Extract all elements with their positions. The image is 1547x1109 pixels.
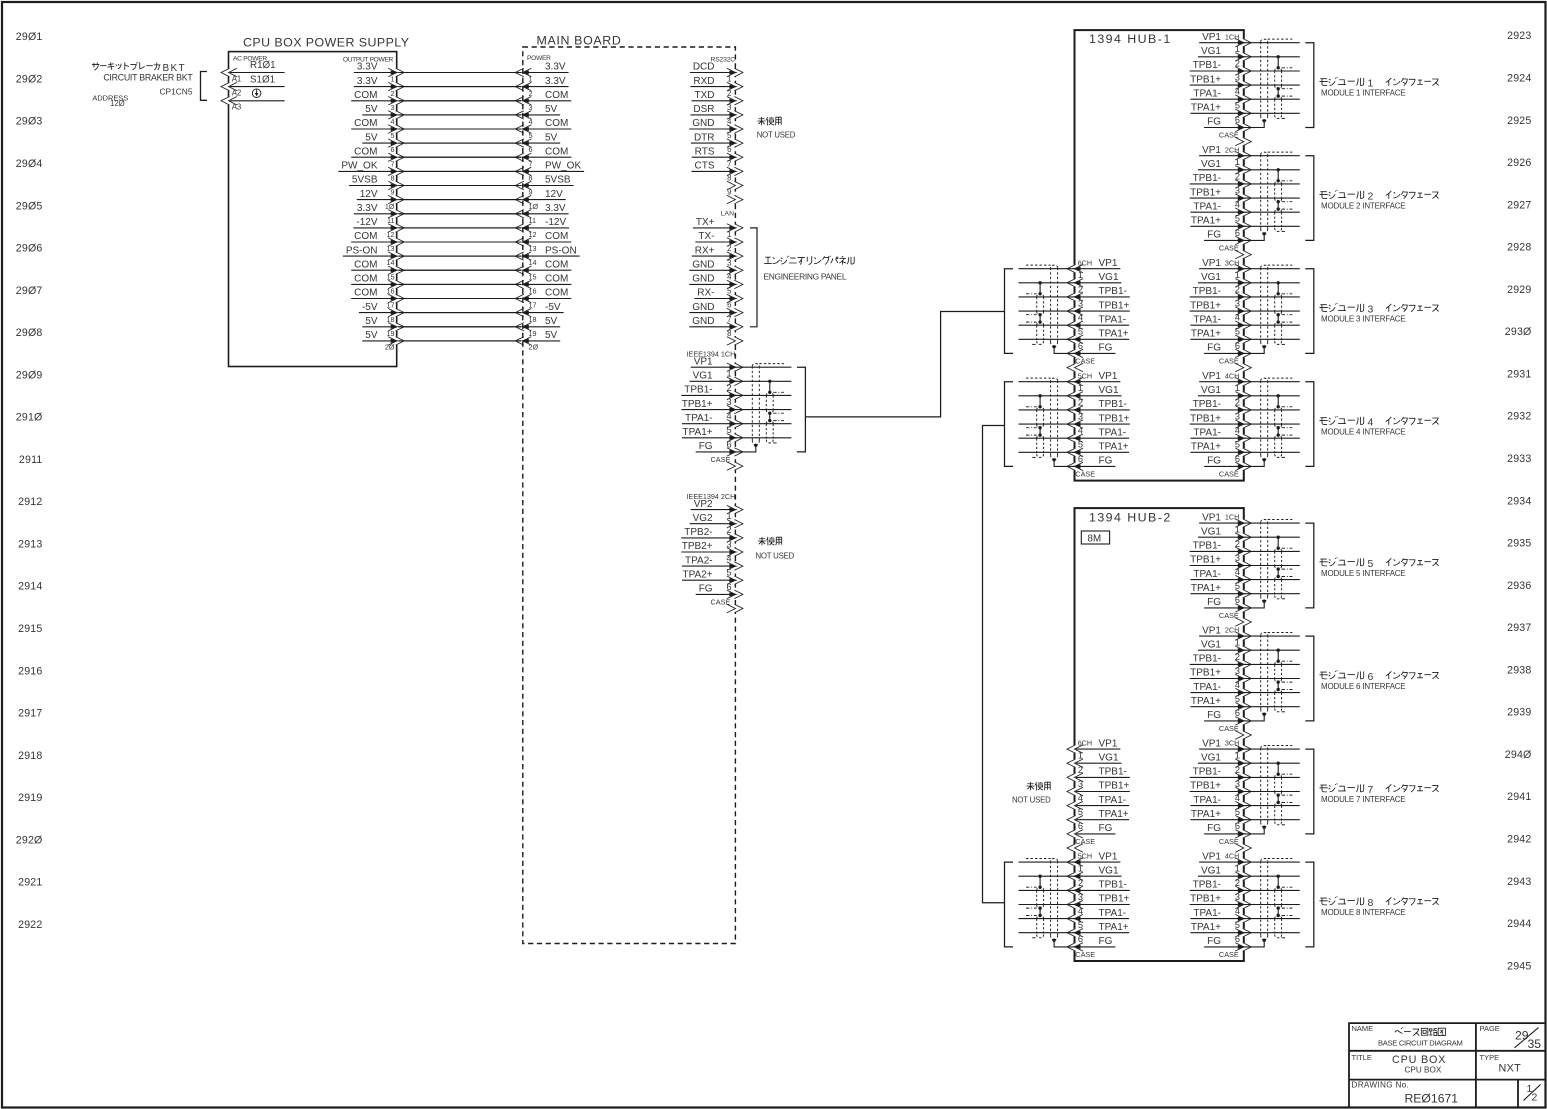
svg-text:2928: 2928 <box>1507 242 1531 254</box>
svg-text:12V: 12V <box>360 189 378 200</box>
label module 5 interface <box>1319 557 1438 578</box>
LAN connector header <box>721 211 734 218</box>
svg-text:VG1: VG1 <box>1201 526 1221 537</box>
HUB-1 6CH cable bracket <box>1005 269 1014 354</box>
svg-text:TX+: TX+ <box>696 217 715 228</box>
HUB-2 4CH pin 6 FG <box>1204 934 1251 951</box>
module 4 interface bracket <box>1305 382 1314 467</box>
label module 6 interface <box>1319 670 1438 691</box>
MAIN BOARD title <box>537 34 622 48</box>
svg-text:9: 9 <box>391 188 395 197</box>
svg-text:4: 4 <box>726 411 731 421</box>
title block TITLE cell: CPU BOX <box>1352 1053 1447 1075</box>
svg-text:TPA1+: TPA1+ <box>1191 216 1221 227</box>
HUB-1 2CH pin 3 TPB1+ <box>1190 186 1252 203</box>
svg-text:VG1: VG1 <box>1099 865 1119 876</box>
svg-text:TPA1-: TPA1- <box>1193 908 1221 919</box>
svg-text:15: 15 <box>387 272 395 281</box>
svg-text:TPA1+: TPA1+ <box>682 427 712 438</box>
power pin 20 labels <box>385 343 539 352</box>
power wire pin 5: 5V <box>362 131 560 147</box>
LAN pin 3: GND <box>689 258 743 274</box>
svg-text:VG1: VG1 <box>1201 46 1221 57</box>
svg-text:4: 4 <box>391 117 395 126</box>
svg-text:7: 7 <box>529 159 533 168</box>
svg-text:3: 3 <box>529 103 533 112</box>
svg-text:TPB1-: TPB1- <box>1193 541 1221 552</box>
LAN pin 5: RX- <box>694 287 743 303</box>
svg-text:TPB1-: TPB1- <box>1193 399 1221 410</box>
svg-text:VP1: VP1 <box>1099 258 1118 269</box>
svg-text:6: 6 <box>1235 341 1240 351</box>
svg-text:CASE: CASE <box>1219 724 1239 733</box>
HUB-2 1CH pin 6 FG <box>1204 595 1251 612</box>
svg-text:TPA1-: TPA1- <box>685 413 713 424</box>
svg-text:VP1: VP1 <box>1099 738 1118 749</box>
HUB channel 2CH cable shield group to module 6 <box>1244 633 1300 721</box>
circuit breaker bracket to CP1CN5 <box>201 72 208 101</box>
HUB-1 4CH pin 5 TPA1+ <box>1190 440 1251 457</box>
HUB-1 3CH pin VP1 <box>1199 258 1251 273</box>
svg-text:2: 2 <box>1235 765 1240 775</box>
LAN pin 7: GND <box>689 315 743 331</box>
svg-text:3CH: 3CH <box>1225 258 1239 267</box>
svg-text:16: 16 <box>387 287 395 296</box>
HUB-2 4CH pin VP1 <box>1199 851 1251 866</box>
svg-text:VP1: VP1 <box>1202 625 1221 636</box>
HUB-1 6CH pin VP1 <box>1067 258 1120 273</box>
svg-text:TPB1-: TPB1- <box>1193 173 1221 184</box>
HUB-2 3CH pin 3 TPB1+ <box>1190 779 1252 796</box>
svg-text:2944: 2944 <box>1507 918 1531 930</box>
svg-text:2918: 2918 <box>18 750 42 762</box>
svg-text:5: 5 <box>726 425 731 435</box>
svg-text:FG: FG <box>699 584 713 595</box>
MB IEEE1394 2CH CASE pin <box>711 598 743 613</box>
svg-text:CASE: CASE <box>1219 950 1239 959</box>
svg-text:2Ø: 2Ø <box>385 343 395 352</box>
HUB-2 3CH pin 5 TPA1+ <box>1190 807 1251 824</box>
svg-text:6: 6 <box>1078 454 1083 464</box>
HUB-2 5CH pin VP1 <box>1067 851 1120 866</box>
svg-text:2929: 2929 <box>1507 284 1531 296</box>
HUB-2 6CH pin VP1 <box>1067 738 1120 753</box>
svg-text:2: 2 <box>1078 765 1083 775</box>
HUB-1 5CH pin 6 FG <box>1067 454 1115 471</box>
svg-text:5: 5 <box>1235 214 1240 224</box>
HUB-2 3CH pin 2 TPB1- <box>1190 765 1252 782</box>
svg-text:TPB1+: TPB1+ <box>682 399 713 410</box>
svg-text:6: 6 <box>1235 595 1240 605</box>
power supply U-PSU box outline <box>229 52 397 367</box>
svg-text:2Ø: 2Ø <box>529 343 539 352</box>
svg-text:5: 5 <box>1078 920 1083 930</box>
svg-text:4: 4 <box>529 117 533 126</box>
svg-text:5: 5 <box>1235 327 1240 337</box>
svg-text:2945: 2945 <box>1507 960 1531 972</box>
svg-text:4: 4 <box>727 117 732 126</box>
svg-text:291Ø: 291Ø <box>16 412 43 424</box>
svg-text:-5V: -5V <box>362 302 378 313</box>
svg-text:8: 8 <box>727 329 731 338</box>
svg-text:1: 1 <box>1235 383 1240 393</box>
svg-text:6: 6 <box>727 301 731 310</box>
svg-text:FG: FG <box>1099 456 1113 467</box>
HUB-2 2CH pin 2 TPB1- <box>1190 652 1252 669</box>
svg-text:NAME: NAME <box>1352 1024 1374 1033</box>
svg-text:6: 6 <box>726 439 731 449</box>
svg-text:FG: FG <box>1207 710 1221 721</box>
HUB-1 6CH CASE pin <box>1067 357 1095 372</box>
svg-text:TPA1+: TPA1+ <box>1099 442 1129 453</box>
svg-text:TPA1-: TPA1- <box>1193 427 1221 438</box>
svg-text:6: 6 <box>726 582 731 592</box>
svg-text:29Ø7: 29Ø7 <box>16 285 43 297</box>
svg-text:TPA1-: TPA1- <box>1193 795 1221 806</box>
HUB-1 4CH pin 4 TPA1- <box>1190 426 1251 443</box>
HUB-1 5CH pin 1 VG1 <box>1067 383 1122 400</box>
svg-text:CTS: CTS <box>695 161 715 172</box>
svg-text:FG: FG <box>1207 456 1221 467</box>
svg-text:4: 4 <box>1078 426 1083 436</box>
svg-text:TPB1+: TPB1+ <box>1190 74 1221 85</box>
svg-text:5: 5 <box>1235 101 1240 111</box>
IEEE1394 2CH not used label <box>756 537 795 561</box>
power wire pin 15: COM <box>351 272 571 288</box>
svg-text:29Ø6: 29Ø6 <box>16 243 43 255</box>
svg-text:6: 6 <box>1235 115 1240 125</box>
svg-text:COM: COM <box>545 259 568 270</box>
svg-text:CIRCUIT BRAKER BKT: CIRCUIT BRAKER BKT <box>103 72 193 82</box>
svg-text:TPA1+: TPA1+ <box>1099 922 1129 933</box>
svg-text:5VSB: 5VSB <box>545 175 571 186</box>
svg-text:2927: 2927 <box>1507 199 1531 211</box>
svg-text:5: 5 <box>1078 807 1083 817</box>
svg-text:PW_OK: PW_OK <box>545 161 581 172</box>
svg-text:S1Ø1: S1Ø1 <box>250 74 275 85</box>
svg-text:11: 11 <box>387 216 394 225</box>
HUB-2 1CH pin 1 VG1 <box>1198 525 1251 542</box>
HUB channel 3CH cable shield group to module 3 <box>1244 265 1300 353</box>
HUB-1 2CH pin VP1 <box>1199 145 1251 160</box>
svg-text:2: 2 <box>727 244 731 253</box>
svg-text:VP1: VP1 <box>1202 851 1221 862</box>
svg-text:-12V: -12V <box>545 217 566 228</box>
svg-text:TX-: TX- <box>698 231 714 242</box>
HUB-2 3CH pin 1 VG1 <box>1198 751 1251 768</box>
svg-text:2943: 2943 <box>1507 876 1531 888</box>
label module 3 interface <box>1319 303 1438 324</box>
HUB-2 2CH channel label 2CH <box>1225 626 1239 635</box>
svg-text:-5V: -5V <box>545 302 561 313</box>
svg-text:TPB1-: TPB1- <box>1193 286 1221 297</box>
HUB-1 3CH pin 2 TPB1- <box>1190 284 1252 301</box>
HUB-1 5CH pin 5 TPA1+ <box>1067 440 1129 457</box>
svg-text:COM: COM <box>354 259 377 270</box>
svg-text:3: 3 <box>1235 666 1240 676</box>
svg-text:2925: 2925 <box>1507 115 1531 127</box>
svg-text:2: 2 <box>1235 397 1240 407</box>
svg-text:5V: 5V <box>365 132 378 143</box>
svg-text:17: 17 <box>529 301 537 310</box>
svg-text:TPA1+: TPA1+ <box>1191 809 1221 820</box>
svg-text:PS-ON: PS-ON <box>346 245 378 256</box>
svg-text:2924: 2924 <box>1507 73 1531 85</box>
svg-text:2911: 2911 <box>19 454 43 466</box>
svg-text:TPB1+: TPB1+ <box>1190 668 1221 679</box>
svg-text:9: 9 <box>727 188 731 197</box>
svg-text:TPB1-: TPB1- <box>1193 767 1221 778</box>
svg-text:NOT USED: NOT USED <box>756 552 795 561</box>
svg-text:FG: FG <box>1207 936 1221 947</box>
AC pin A1 wire R101 <box>221 60 285 83</box>
svg-text:TPA1-: TPA1- <box>1099 795 1127 806</box>
svg-text:2: 2 <box>1078 878 1083 888</box>
svg-text:FG: FG <box>1099 823 1113 834</box>
svg-text:2: 2 <box>1235 58 1240 68</box>
svg-text:NOT USED: NOT USED <box>1012 796 1051 805</box>
svg-text:6: 6 <box>529 145 533 154</box>
HUB-1 4CH pin 3 TPB1+ <box>1190 412 1252 429</box>
svg-text:LAN: LAN <box>721 211 734 218</box>
svg-text:MODULE 5 INTERFACE: MODULE 5 INTERFACE <box>1321 569 1405 578</box>
svg-text:PW_OK: PW_OK <box>341 161 377 172</box>
label module 2 interface <box>1319 190 1438 211</box>
wire HUB-1 5CH to HUB-2 5CH <box>983 426 1005 903</box>
svg-text:A3: A3 <box>232 103 242 112</box>
svg-text:29Ø3: 29Ø3 <box>16 116 43 128</box>
svg-text:6: 6 <box>1235 228 1240 238</box>
LAN pin (top): TX+ <box>693 217 743 232</box>
label connector CP1CN5 <box>159 87 192 97</box>
MB IEEE1394 1CH pin 4 TPA1- <box>682 411 743 428</box>
HUB-2 5CH pin 2 TPB1- <box>1067 878 1130 895</box>
HUB-2 6CH pin 4 TPA1- <box>1067 793 1129 810</box>
label circuit breaker BKT <box>92 62 193 82</box>
svg-text:2923: 2923 <box>1507 30 1531 42</box>
svg-text:VG1: VG1 <box>1201 272 1221 283</box>
svg-text:FG: FG <box>1099 343 1113 354</box>
label ADDRESS 120 <box>92 94 128 108</box>
svg-text:2938: 2938 <box>1507 664 1531 676</box>
svg-text:5V: 5V <box>365 316 378 327</box>
title block table <box>1349 1023 1546 1108</box>
MB IEEE1394 1CH pin VP1 <box>691 356 743 371</box>
svg-text:TPA1+: TPA1+ <box>1099 809 1129 820</box>
svg-text:2CH: 2CH <box>1225 145 1239 154</box>
HUB-2 2CH pin 4 TPA1- <box>1190 680 1251 697</box>
AC pin A3 wire protective earth <box>221 97 285 112</box>
MB IEEE1394 1CH CASE pin <box>711 455 743 470</box>
module 7 interface bracket <box>1305 749 1314 834</box>
svg-text:3.3V: 3.3V <box>545 203 566 214</box>
svg-text:CASE: CASE <box>711 598 731 607</box>
svg-text:5: 5 <box>1078 327 1083 337</box>
HUB-2 2CH pin VP1 <box>1199 625 1251 640</box>
power wire pin 7: PW_OK <box>338 159 584 175</box>
HUB-1 5CH channel label 5CH <box>1078 371 1092 380</box>
svg-text:TPB1+: TPB1+ <box>1190 894 1221 905</box>
HUB-1 6CH pin 5 TPA1+ <box>1067 327 1129 344</box>
svg-text:6CH: 6CH <box>1078 258 1092 267</box>
svg-text:1: 1 <box>1235 864 1240 874</box>
svg-text:2922: 2922 <box>18 919 42 931</box>
svg-text:2: 2 <box>1078 284 1083 294</box>
HUB-1 1CH pin 6 FG <box>1204 115 1251 132</box>
HUB-1 4CH pin VP1 <box>1199 371 1251 386</box>
title block DRAWING No cell: RE01671 <box>1352 1081 1459 1106</box>
HUB-2 5CH pin 4 TPA1- <box>1067 906 1129 923</box>
module 6 interface bracket <box>1305 636 1314 721</box>
svg-text:5: 5 <box>1235 807 1240 817</box>
MB IEEE1394 1CH cable shield group <box>735 364 791 452</box>
RS232C pin 3: DSR <box>690 103 743 119</box>
svg-text:FG: FG <box>1207 823 1221 834</box>
svg-text:VG1: VG1 <box>693 371 713 382</box>
svg-text:VG1: VG1 <box>1201 159 1221 170</box>
svg-text:7: 7 <box>727 159 731 168</box>
svg-text:TYPE: TYPE <box>1480 1053 1500 1062</box>
power wire pin 6: COM <box>351 145 571 161</box>
HUB-2 5CH cable bracket <box>1005 862 1014 947</box>
svg-text:2: 2 <box>1235 171 1240 181</box>
svg-text:2: 2 <box>1235 539 1240 549</box>
RS232C pin 5: DTR <box>691 131 743 147</box>
svg-text:5: 5 <box>726 568 731 578</box>
svg-text:TITLE: TITLE <box>1352 1053 1372 1062</box>
HUB-2 6CH not used label <box>1012 782 1051 805</box>
svg-text:4: 4 <box>727 272 732 281</box>
HUB-1 3CH CASE pin <box>1219 357 1251 372</box>
power wire pin (top): 3.3V <box>354 62 569 77</box>
svg-text:1CH: 1CH <box>1225 32 1239 41</box>
svg-text:6: 6 <box>727 145 731 154</box>
power wire pin 11: -12V <box>353 216 569 232</box>
svg-text:CPU BOX: CPU BOX <box>1405 1066 1442 1075</box>
HUB-1 4CH pin 2 TPB1- <box>1190 397 1252 414</box>
svg-text:8M: 8M <box>1088 534 1102 545</box>
MAIN BOARD POWER connector header <box>527 55 551 62</box>
HUB-2 1CH pin 4 TPA1- <box>1190 567 1251 584</box>
svg-text:VG1: VG1 <box>1099 752 1119 763</box>
svg-text:TPB1+: TPB1+ <box>1190 187 1221 198</box>
svg-text:3: 3 <box>1235 779 1240 789</box>
HUB-2 1CH pin 3 TPB1+ <box>1190 553 1252 570</box>
svg-text:29Ø2: 29Ø2 <box>16 74 43 86</box>
power wire pin 12: COM <box>351 230 571 246</box>
svg-text:12: 12 <box>387 230 395 239</box>
svg-text:TPB1+: TPB1+ <box>1099 781 1130 792</box>
svg-text:2: 2 <box>529 89 533 98</box>
svg-text:DRAWING No.: DRAWING No. <box>1352 1081 1410 1090</box>
module 8 interface bracket <box>1305 862 1314 947</box>
svg-text:VP1: VP1 <box>1202 512 1221 523</box>
svg-text:8: 8 <box>529 174 533 183</box>
HUB-1 2CH CASE pin <box>1219 244 1251 259</box>
LAN pin 8 <box>727 329 743 345</box>
hub U-HUB1 box outline <box>1075 30 1244 481</box>
svg-text:GND: GND <box>692 302 714 313</box>
svg-text:2926: 2926 <box>1507 157 1531 169</box>
svg-text:2: 2 <box>1235 284 1240 294</box>
svg-text:1: 1 <box>1078 751 1083 761</box>
svg-text:TPB1+: TPB1+ <box>1190 555 1221 566</box>
svg-text:1: 1 <box>1235 270 1240 280</box>
HUB-1 1CH pin 2 TPB1- <box>1190 58 1252 75</box>
svg-text:29Ø1: 29Ø1 <box>16 31 43 43</box>
svg-text:6: 6 <box>1235 708 1240 718</box>
svg-text:3: 3 <box>726 539 731 549</box>
svg-text:14: 14 <box>387 258 395 267</box>
svg-text:12: 12 <box>529 230 537 239</box>
svg-text:29Ø4: 29Ø4 <box>16 158 43 170</box>
label module 8 interface <box>1319 896 1438 917</box>
svg-text:5CH: 5CH <box>1078 852 1092 861</box>
HUB-2 1CH CASE pin <box>1219 611 1251 626</box>
IEEE1394 2CH connector header <box>687 492 736 501</box>
svg-text:6CH: 6CH <box>1078 739 1092 748</box>
HUB-1 4CH pin 6 FG <box>1204 454 1251 471</box>
svg-text:3: 3 <box>1235 892 1240 902</box>
svg-text:5: 5 <box>1235 920 1240 930</box>
HUB-1 6CH pin 3 TPB1+ <box>1067 299 1130 316</box>
HUB-1 2CH pin 6 FG <box>1204 228 1251 245</box>
svg-text:MODULE 6 INTERFACE: MODULE 6 INTERFACE <box>1321 682 1405 691</box>
svg-text:5V: 5V <box>365 330 378 341</box>
svg-text:1CH: 1CH <box>1225 513 1239 522</box>
svg-text:1: 1 <box>1078 270 1083 280</box>
svg-text:VP1: VP1 <box>1202 145 1221 156</box>
svg-text:18: 18 <box>387 315 395 324</box>
svg-text:DTR: DTR <box>694 132 715 143</box>
HUB-1 6CH channel label 6CH <box>1078 258 1092 267</box>
MB IEEE1394 2CH pin 5 TPA2+ <box>682 568 743 585</box>
svg-text:5: 5 <box>1235 694 1240 704</box>
svg-text:1: 1 <box>1078 383 1083 393</box>
HUB-2 2CH pin 6 FG <box>1204 708 1251 725</box>
HUB-1 3CH channel label 3CH <box>1225 258 1239 267</box>
svg-text:19: 19 <box>387 329 395 338</box>
svg-text:COM: COM <box>354 274 377 285</box>
svg-text:2916: 2916 <box>18 665 42 677</box>
power wire pin 4: COM <box>351 117 571 133</box>
svg-text:2932: 2932 <box>1507 411 1531 423</box>
protective earth symbol <box>252 89 261 98</box>
title block sheet 1/2 <box>1527 1083 1538 1104</box>
module 5 interface bracket <box>1305 523 1314 608</box>
svg-text:VG2: VG2 <box>693 513 713 524</box>
HUB-1 1CH pin 3 TPB1+ <box>1190 73 1252 90</box>
RS232C pin 8 <box>727 174 743 190</box>
svg-text:TPB1-: TPB1- <box>1099 399 1127 410</box>
svg-text:COM: COM <box>545 146 568 157</box>
HUB-1 5CH cable bracket <box>1005 382 1014 467</box>
svg-text:MODULE 7 INTERFACE: MODULE 7 INTERFACE <box>1321 795 1405 804</box>
svg-text:CASE: CASE <box>1219 470 1239 479</box>
svg-text:5V: 5V <box>545 132 558 143</box>
HUB-2 3CH channel label 3CH <box>1225 739 1239 748</box>
LAN engineering panel bracket <box>750 228 757 327</box>
wire main board 1394 1CH to HUB-1 6CH <box>805 312 1004 417</box>
HUB-1 1CH pin VP1 <box>1199 32 1251 47</box>
MB IEEE1394 2CH pin VP2 <box>691 499 743 514</box>
svg-text:TPA1+: TPA1+ <box>1191 442 1221 453</box>
svg-text:TPA1-: TPA1- <box>1193 201 1221 212</box>
HUB-1 6CH pin 4 TPA1- <box>1067 313 1129 330</box>
svg-text:ENGINEERING PANEL: ENGINEERING PANEL <box>764 272 847 282</box>
svg-text:4: 4 <box>1235 87 1240 97</box>
svg-text:17: 17 <box>387 301 395 310</box>
